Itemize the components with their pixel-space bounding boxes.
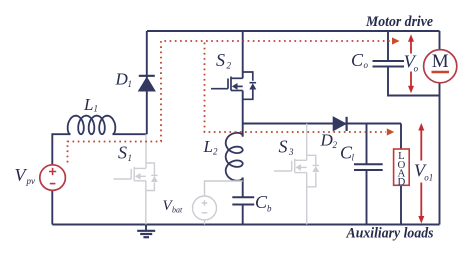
wire S2 source to aux node xyxy=(242,91,244,137)
svg-text:S: S xyxy=(118,143,127,163)
svg-text:2: 2 xyxy=(333,140,338,150)
label Motor drive xyxy=(365,14,433,30)
wire C_o branch xyxy=(388,31,440,96)
diode D2 xyxy=(333,117,346,131)
svg-text:o: o xyxy=(414,63,419,73)
wire V_pv lower xyxy=(51,190,53,224)
svg-text:M: M xyxy=(432,51,449,72)
svg-text:S: S xyxy=(216,50,225,70)
wire LOAD branch upper xyxy=(400,124,402,150)
label Auxiliary loads xyxy=(346,226,434,242)
transistor S2 xyxy=(211,72,256,99)
label C_o xyxy=(351,50,369,70)
LOAD box xyxy=(394,149,410,188)
svg-text:1: 1 xyxy=(128,153,133,163)
svg-text:Auxiliary loads: Auxiliary loads xyxy=(346,226,434,242)
svg-text:bat: bat xyxy=(172,206,183,215)
capacitor C_l xyxy=(354,164,383,170)
wire S2 drain from rail xyxy=(242,31,244,78)
svg-text:b: b xyxy=(267,204,272,214)
wire L2 bottom to C_b xyxy=(242,178,244,225)
arrow V_o xyxy=(408,34,414,93)
red dashed path 2 xyxy=(205,43,387,133)
svg-text:L: L xyxy=(83,95,93,114)
svg-text:C: C xyxy=(351,50,364,70)
svg-text:o1: o1 xyxy=(424,173,433,183)
inductor L1 xyxy=(68,116,116,135)
label S_1 xyxy=(118,143,132,163)
arrow V_ol xyxy=(418,123,424,224)
wire V_pv upper xyxy=(52,134,70,165)
svg-text:Motor drive: Motor drive xyxy=(365,14,433,30)
label V_o xyxy=(404,52,419,74)
svg-text:1: 1 xyxy=(94,104,99,114)
ground xyxy=(137,225,155,238)
label S_2 xyxy=(216,50,232,71)
svg-text:S: S xyxy=(279,137,288,157)
transistor S1 xyxy=(114,134,158,224)
label V_o1 xyxy=(414,160,433,182)
wire right vertical lower xyxy=(439,83,441,225)
svg-text:l: l xyxy=(352,153,355,163)
motor M xyxy=(424,50,457,83)
svg-text:1: 1 xyxy=(128,79,133,89)
label L_2 xyxy=(203,137,219,157)
source V_pv xyxy=(40,165,66,191)
svg-text:pv: pv xyxy=(26,176,36,186)
battery source V_bat xyxy=(193,181,243,225)
wire top rail xyxy=(147,30,440,32)
label S_3 xyxy=(279,137,295,158)
wire LOAD branch lower xyxy=(400,185,402,224)
transistor S3 xyxy=(274,124,319,225)
capacitor C_o xyxy=(373,61,405,67)
inductor L2 xyxy=(226,133,243,181)
wire C_l branch xyxy=(366,124,368,225)
red dashed path 1 xyxy=(68,41,392,163)
svg-text:o: o xyxy=(364,60,369,70)
svg-text:2: 2 xyxy=(213,147,218,157)
label L_1 xyxy=(83,95,98,114)
svg-text:2: 2 xyxy=(227,61,232,71)
wire bottom rail xyxy=(52,224,439,226)
wire aux row xyxy=(243,123,401,125)
diode D1 xyxy=(139,76,155,91)
red dashed path 2 arrowhead xyxy=(387,128,394,135)
label D_1 xyxy=(115,70,133,90)
svg-text:D: D xyxy=(115,70,129,89)
label V_bat xyxy=(163,198,184,215)
label C_b xyxy=(255,192,272,214)
capacitor C_b xyxy=(232,197,254,204)
svg-text:D: D xyxy=(320,131,334,150)
label D_2 xyxy=(320,131,338,151)
red dashed path 1 arrowhead xyxy=(392,37,400,44)
svg-text:D: D xyxy=(397,176,405,188)
wire D1 branch xyxy=(146,31,148,134)
svg-text:L: L xyxy=(203,137,213,156)
label V_pv xyxy=(15,165,36,186)
svg-text:3: 3 xyxy=(288,147,294,157)
wire L1 to D1 node xyxy=(113,133,147,135)
wire right vertical upper xyxy=(439,31,441,50)
label C_l xyxy=(340,143,355,163)
